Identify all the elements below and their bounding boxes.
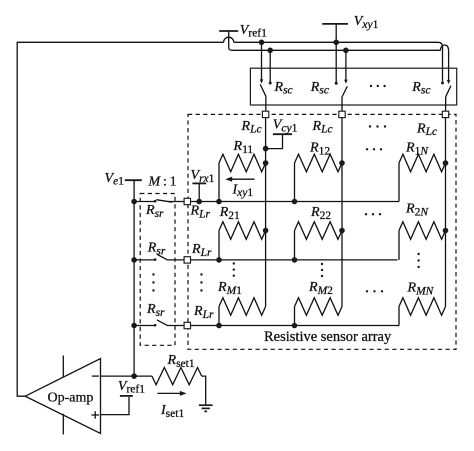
- resistor R21: [216, 205, 268, 263]
- wire row M bus: [191, 325, 400, 327]
- wire Rset1 to ground: [202, 376, 206, 405]
- wire Vrx1 stem: [198, 183, 200, 201]
- vertical ellipsis column-N cells: [417, 253, 419, 268]
- terminal Vcy1 bar: [273, 133, 292, 135]
- switch Rsc column N: lever: [446, 86, 451, 97]
- wire Vref1 stem under hop: [229, 31, 232, 50]
- op-amp power tick bottom: [62, 414, 64, 435]
- current arrow Ixy1: [231, 178, 255, 180]
- terminal Ve1 bar: [125, 179, 142, 181]
- switch Rsr row 1: wire from left: [134, 201, 155, 203]
- switch Rsr row M lever (open): [157, 320, 168, 326]
- vertical ellipsis column-1 cells: [233, 262, 235, 277]
- node Vcy1 junction: [263, 146, 269, 152]
- switch Rsc column 1: lower throw line with contact dot: [269, 50, 271, 82]
- resistor RM1: [216, 280, 265, 328]
- switch Rsc column 1: arrowhead: [260, 79, 264, 83]
- row-switch bank dashed box: [140, 194, 175, 346]
- connector pad colN: [442, 111, 448, 117]
- wire colN pole to connector: [445, 97, 447, 111]
- resistor RMN: [399, 281, 446, 326]
- resistor R12: [292, 141, 345, 205]
- op-amp U1 triangle: [25, 359, 100, 434]
- wire to Rset1: [134, 375, 152, 377]
- resistive sensor array dashed box: [188, 114, 456, 349]
- switch Rsr row 2 lever (open): [157, 254, 168, 260]
- wire row 2 to connector: [168, 259, 184, 261]
- svg-text:Op-amp: Op-amp: [48, 391, 94, 406]
- ellipsis RLc row: [369, 125, 386, 127]
- wire col2 pole to connector: [341, 97, 343, 111]
- switch Rsr row M: wire from left: [134, 325, 155, 327]
- ground: [199, 405, 213, 411]
- node upper bus junction col1: [259, 40, 265, 46]
- resistor R2N: [399, 202, 448, 260]
- wire Vxy1 stem: [335, 24, 337, 42]
- switch Rsr row 2: wire from left: [134, 259, 155, 261]
- resistor Rset1: [152, 368, 202, 385]
- wire row M to connector: [168, 325, 184, 327]
- switch Rsr row 1 lever (closed): [156, 200, 172, 203]
- wire left row-driver line: [133, 180, 135, 376]
- wire Vcy1 stem: [266, 134, 283, 148]
- op-amp minus sign: [92, 375, 99, 377]
- svg-text:Resistive sensor array: Resistive sensor array: [264, 329, 392, 345]
- wire row 2 bus: [191, 259, 398, 261]
- switch Rsc column 1: upper throw line: [261, 42, 263, 79]
- column-switch bank box: [250, 68, 456, 105]
- switch Rsc column 2: upper line with contact dot: [335, 42, 337, 82]
- ellipsis between Rsc switches: [370, 85, 386, 87]
- ellipsis row2 labels: [365, 213, 381, 215]
- svg-text:M : 1: M : 1: [148, 174, 177, 189]
- terminal Vxy1 (bar): [322, 23, 348, 25]
- connector pad col1: [262, 111, 268, 117]
- wire hop over Vref1 stem: [224, 37, 234, 42]
- node lower bus junction col2: [343, 48, 349, 54]
- vertical ellipsis RLr column: [200, 273, 202, 291]
- resistor RM2: [292, 280, 342, 328]
- wire row 1 to connector: [168, 201, 184, 203]
- wire row 1 bus: [191, 201, 400, 203]
- node left-wire junction row 1: [131, 199, 137, 205]
- resistor R22: [292, 205, 345, 263]
- wire op-amp output loop (left edge and top): [17, 42, 223, 396]
- wire lower bus hop-over and turn down at right end: [440, 45, 448, 80]
- node upper-bus contact colN (dot): [441, 81, 444, 84]
- wire lower bus (Vref1): [232, 49, 441, 51]
- node left-wire junction row M: [131, 323, 137, 329]
- wire non-inverting input to Vref1: [101, 397, 130, 415]
- connector pad col2: [339, 111, 345, 117]
- wire column 1 line: [265, 118, 267, 307]
- switch Rsc column 2: arrowhead: [344, 80, 348, 84]
- vertical ellipsis Rsr bank: [152, 273, 154, 291]
- op-amp power tick top: [62, 356, 64, 378]
- node lower bus junction col1: [267, 48, 273, 54]
- switch Rsc column 1: lever: [260, 84, 266, 96]
- wire column N line: [445, 118, 447, 307]
- switch Rsc column 2: lever: [342, 86, 347, 97]
- wire col1 pole to connector: [265, 96, 267, 111]
- ellipsis row1 labels: [366, 148, 382, 150]
- ellipsis rowM labels: [366, 290, 383, 292]
- vertical ellipsis column-2 cells: [321, 263, 323, 277]
- switch Rsc column N: arrowhead on lower-bus line: [447, 80, 451, 84]
- node inverting input junction: [131, 373, 137, 379]
- connector pad row1: [184, 198, 190, 204]
- wire upper bus to right end: [234, 42, 443, 81]
- wire column 2 line: [341, 118, 343, 307]
- terminal Vref1 (top bar): [219, 30, 238, 32]
- wire inverting input: [101, 375, 135, 377]
- connector pad row2: [184, 257, 190, 263]
- connector pad rowM: [184, 322, 190, 328]
- switch Rsc column 2: lower throw line: [345, 50, 347, 80]
- node left-wire junction row 2: [131, 257, 137, 263]
- resistor R1N: [399, 141, 448, 202]
- current arrow Iset1: [157, 392, 182, 394]
- node upper bus junction Vxy1/col2: [333, 40, 339, 46]
- resistor R11: [216, 139, 268, 204]
- op-amp plus sign: [91, 411, 99, 418]
- terminal Vrx1 bar: [192, 182, 206, 184]
- node Vrx1 junction: [196, 199, 202, 205]
- terminal Vref1 bottom bar: [120, 395, 133, 397]
